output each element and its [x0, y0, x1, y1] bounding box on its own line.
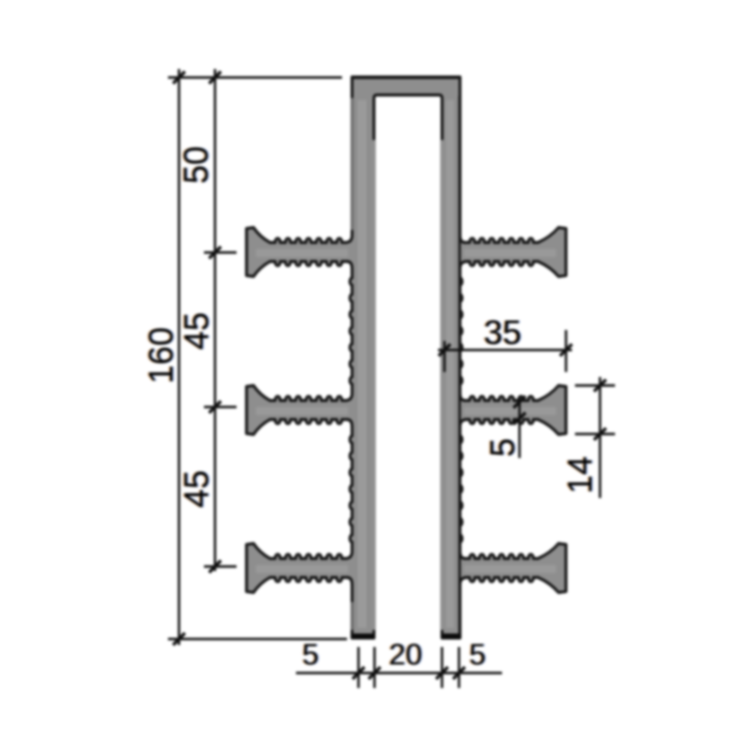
svg-text:160: 160 [143, 327, 181, 384]
svg-text:35: 35 [484, 314, 522, 352]
svg-text:45: 45 [178, 312, 216, 350]
svg-text:45: 45 [178, 470, 216, 508]
svg-text:50: 50 [178, 146, 216, 184]
svg-text:5: 5 [302, 639, 319, 672]
svg-text:20: 20 [389, 639, 422, 672]
dimension 35 (arm length) [443, 341, 445, 372]
svg-text:5: 5 [484, 438, 522, 457]
svg-text:14: 14 [562, 456, 600, 494]
waterstop profile body [247, 77, 567, 638]
svg-text:5: 5 [469, 639, 486, 672]
dimension 5 (web thickness) [518, 399, 520, 458]
extension line: profile top [168, 76, 342, 78]
dimension line 160 (overall height) [178, 69, 180, 645]
dimension 14 (anchor head height) [575, 384, 615, 386]
inner gap edge softening [372, 140, 376, 630]
bottom dimension 5/20/5 [357, 647, 359, 688]
extension line: profile bottom [168, 638, 347, 640]
fill texture highlights [358, 100, 367, 628]
dimension line 50/45/45 [214, 69, 216, 571]
